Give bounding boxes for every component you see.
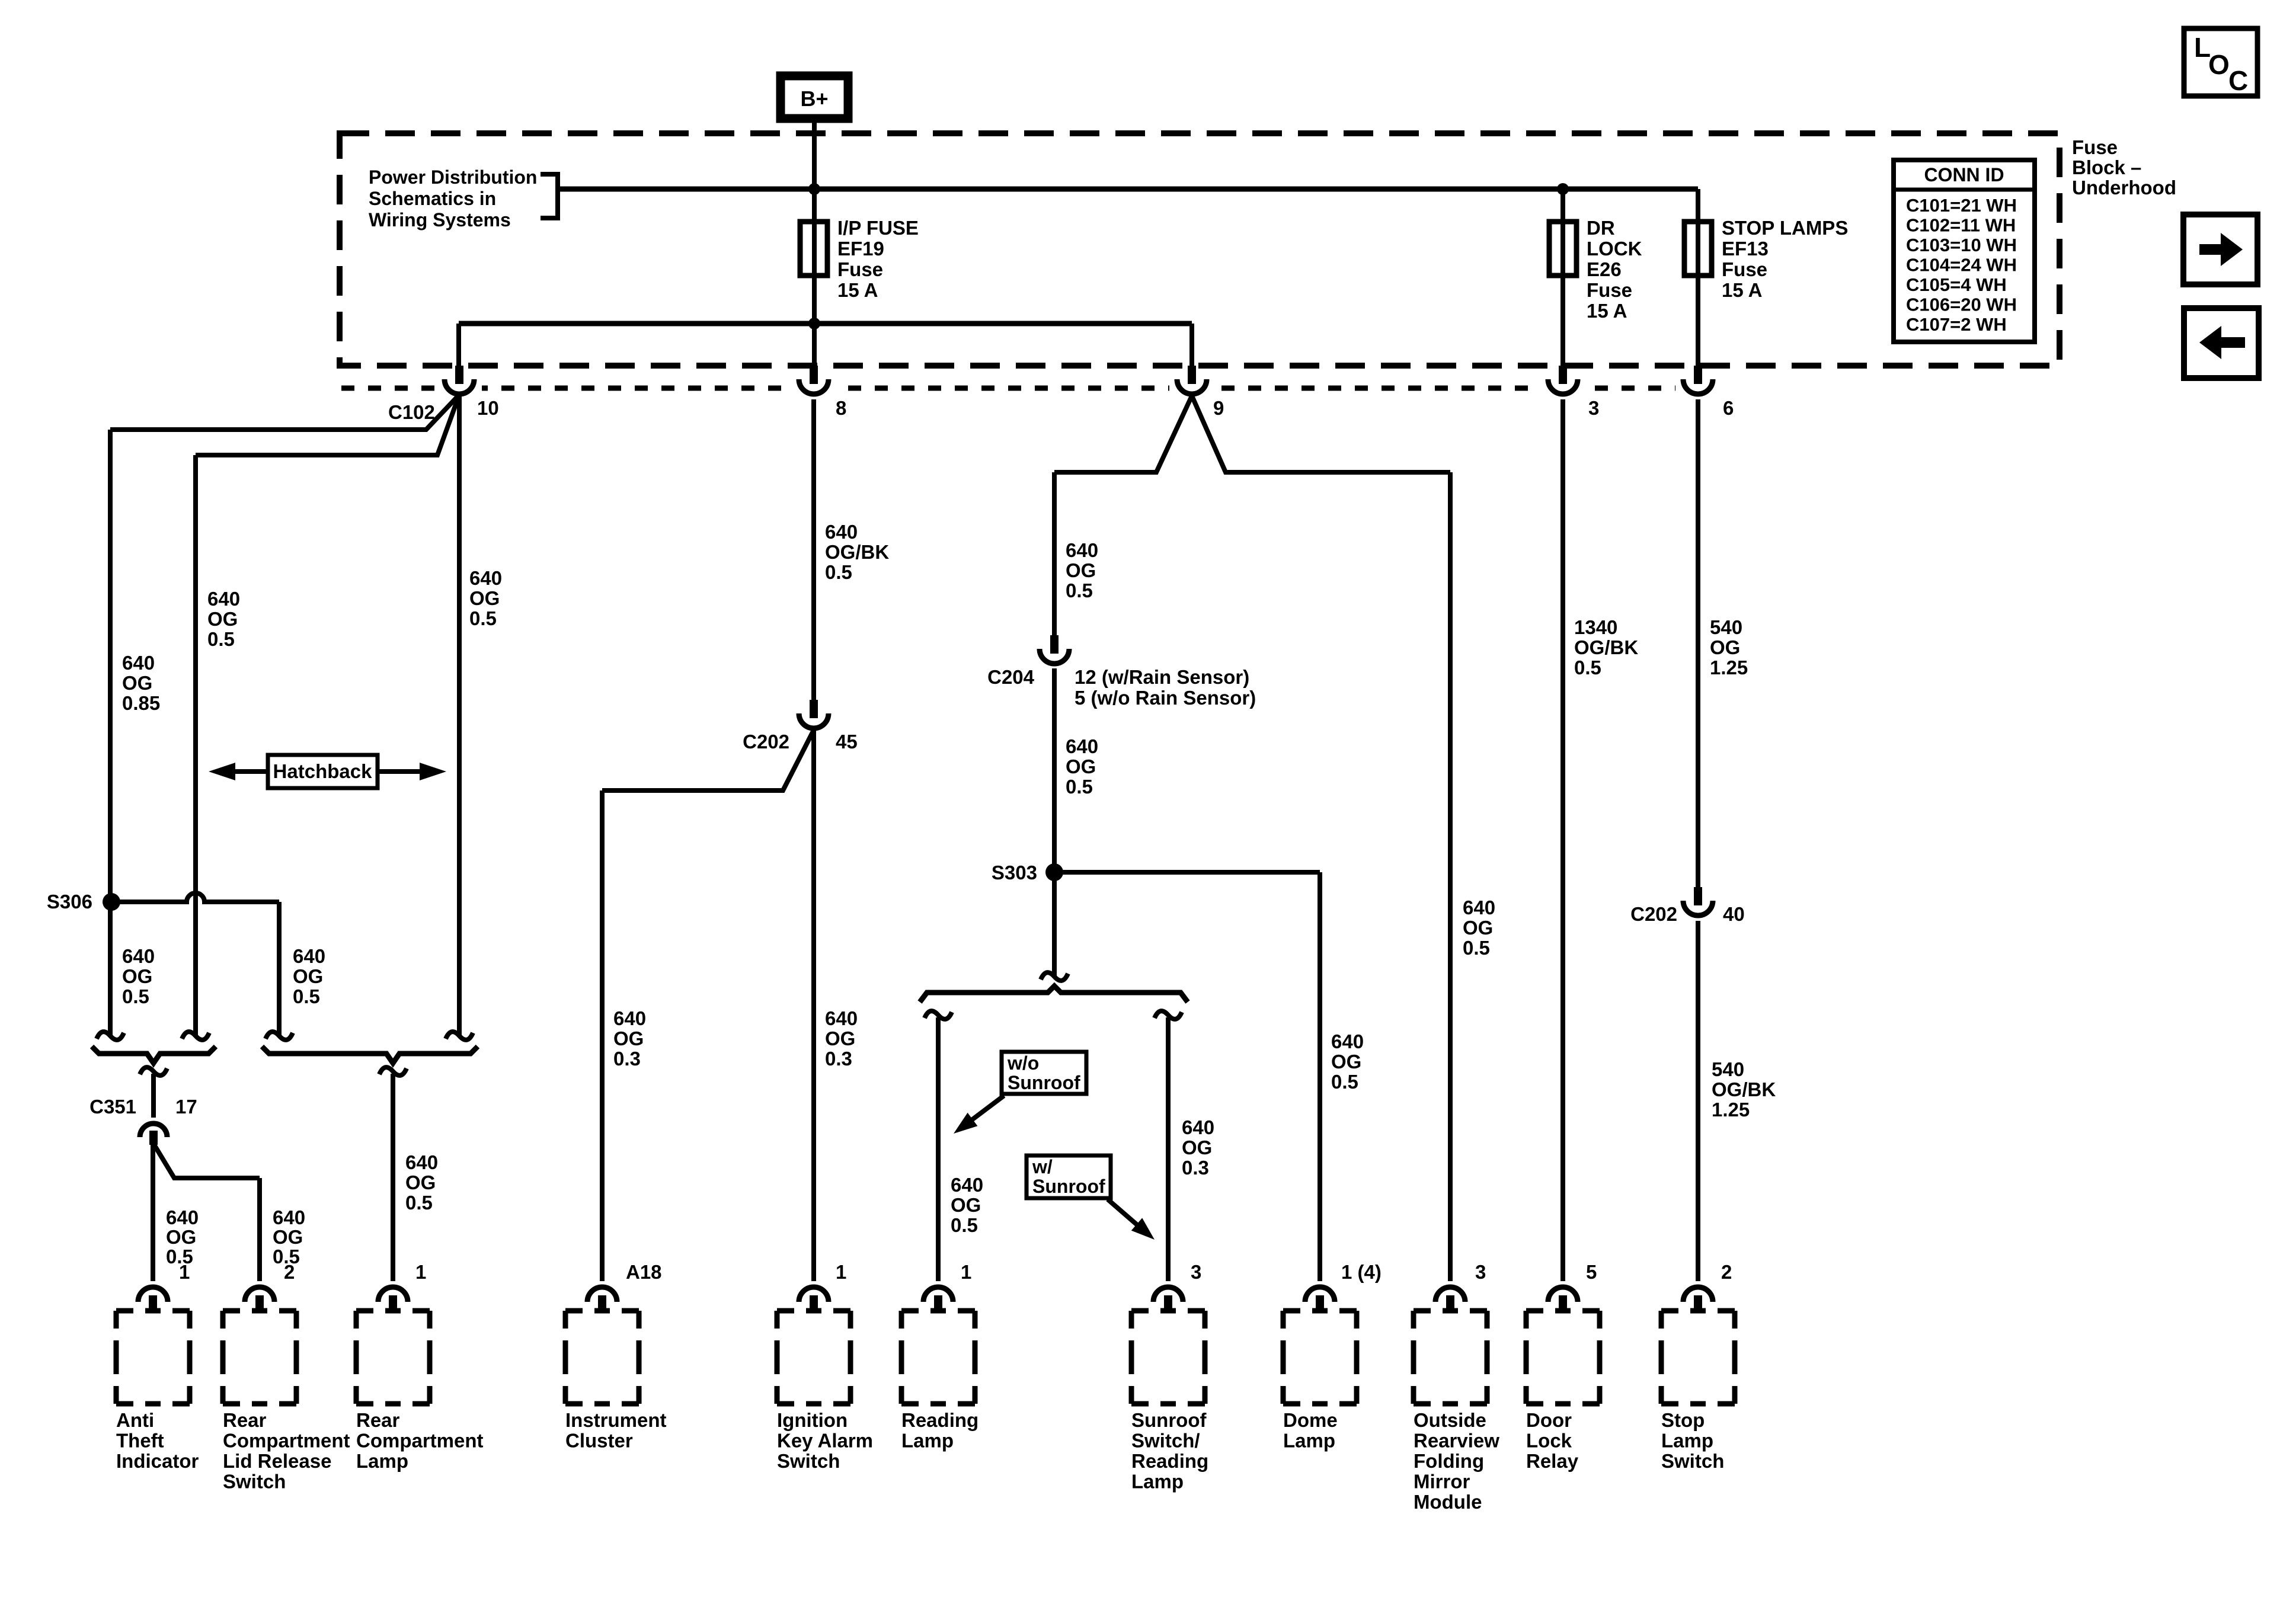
svg-text:8: 8 [836, 397, 846, 419]
svg-text:O: O [2208, 49, 2230, 80]
svg-text:Door: Door [1526, 1409, 1572, 1431]
svg-text:Hatchback: Hatchback [273, 760, 373, 782]
svg-text:17: 17 [175, 1096, 197, 1118]
svg-text:640: 640 [1066, 735, 1098, 757]
svg-text:Rear: Rear [223, 1409, 267, 1431]
svg-text:1.25: 1.25 [1712, 1099, 1750, 1121]
svg-text:12 (w/Rain Sensor): 12 (w/Rain Sensor) [1075, 666, 1249, 688]
svg-text:0.3: 0.3 [1182, 1157, 1209, 1179]
svg-text:OG: OG [1331, 1051, 1361, 1073]
svg-text:Relay: Relay [1526, 1450, 1579, 1472]
svg-text:S306: S306 [47, 891, 92, 913]
svg-text:Lock: Lock [1526, 1430, 1572, 1452]
svg-text:640: 640 [122, 652, 155, 674]
svg-text:OG/BK: OG/BK [1574, 636, 1638, 658]
svg-text:1: 1 [415, 1261, 426, 1283]
svg-text:Switch: Switch [1661, 1450, 1724, 1472]
svg-text:0.3: 0.3 [825, 1048, 852, 1070]
svg-text:Fuse: Fuse [1722, 258, 1767, 280]
svg-text:1: 1 [961, 1261, 971, 1283]
svg-text:1: 1 [836, 1261, 846, 1283]
svg-text:640: 640 [273, 1206, 305, 1228]
svg-text:3: 3 [1588, 397, 1599, 419]
svg-text:OG: OG [207, 608, 238, 630]
svg-text:640: 640 [122, 945, 155, 967]
svg-text:C103=10 WH: C103=10 WH [1906, 235, 2017, 255]
svg-text:2: 2 [284, 1261, 295, 1283]
svg-text:640: 640 [825, 521, 858, 543]
svg-text:0.5: 0.5 [469, 607, 497, 629]
svg-text:OG/BK: OG/BK [825, 541, 889, 563]
svg-text:Module: Module [1414, 1491, 1482, 1513]
svg-text:Lamp: Lamp [901, 1430, 954, 1452]
svg-text:OG: OG [1710, 636, 1740, 658]
svg-text:C104=24 WH: C104=24 WH [1906, 255, 2017, 276]
svg-text:1: 1 [179, 1261, 190, 1283]
svg-text:640: 640 [405, 1151, 438, 1173]
svg-text:Key Alarm: Key Alarm [777, 1430, 873, 1452]
svg-text:OG: OG [1182, 1137, 1212, 1158]
svg-text:1340: 1340 [1574, 616, 1617, 638]
svg-text:C: C [2228, 65, 2248, 96]
svg-text:C101=21 WH: C101=21 WH [1906, 195, 2017, 216]
svg-text:3: 3 [1191, 1261, 1201, 1283]
svg-text:Schematics in: Schematics in [369, 188, 496, 209]
svg-text:0.5: 0.5 [122, 985, 149, 1007]
svg-text:C102: C102 [388, 401, 435, 423]
svg-text:0.3: 0.3 [613, 1048, 641, 1070]
svg-text:0.5: 0.5 [1066, 580, 1093, 601]
svg-text:Outside: Outside [1414, 1409, 1486, 1431]
svg-text:Cluster: Cluster [565, 1430, 633, 1452]
svg-text:Fuse: Fuse [837, 258, 883, 280]
svg-text:w/: w/ [1032, 1156, 1053, 1177]
svg-text:6: 6 [1723, 397, 1734, 419]
svg-text:DR: DR [1587, 217, 1615, 239]
svg-text:Underhood: Underhood [2072, 177, 2176, 199]
svg-text:5 (w/o Rain Sensor): 5 (w/o Rain Sensor) [1075, 687, 1256, 709]
svg-text:0.5: 0.5 [1331, 1071, 1358, 1093]
svg-text:Wiring Systems: Wiring Systems [369, 209, 511, 231]
svg-text:640: 640 [207, 588, 240, 610]
svg-text:OG/BK: OG/BK [1712, 1078, 1776, 1100]
svg-text:Sunroof: Sunroof [1008, 1072, 1080, 1093]
svg-text:C204: C204 [987, 666, 1035, 688]
svg-text:Fuse: Fuse [1587, 279, 1632, 301]
svg-text:15 A: 15 A [1587, 300, 1627, 322]
svg-text:640: 640 [1066, 539, 1098, 561]
svg-text:Lamp: Lamp [1283, 1430, 1335, 1452]
svg-text:STOP LAMPS: STOP LAMPS [1722, 217, 1848, 239]
svg-text:OG: OG [122, 672, 152, 694]
svg-text:Lid Release: Lid Release [223, 1450, 331, 1472]
svg-text:A18: A18 [626, 1261, 662, 1283]
svg-text:OG: OG [825, 1028, 855, 1049]
svg-text:Reading: Reading [1131, 1450, 1208, 1472]
svg-text:S303: S303 [992, 862, 1037, 884]
svg-text:0.5: 0.5 [405, 1192, 433, 1214]
svg-text:CONN ID: CONN ID [1924, 164, 2004, 185]
svg-text:3: 3 [1475, 1261, 1486, 1283]
svg-text:Lamp: Lamp [1661, 1430, 1713, 1452]
svg-text:Theft: Theft [116, 1430, 164, 1452]
svg-text:15 A: 15 A [837, 279, 878, 301]
svg-text:Fuse: Fuse [2072, 136, 2118, 158]
svg-text:E26: E26 [1587, 258, 1622, 280]
svg-text:EF13: EF13 [1722, 238, 1769, 260]
svg-text:40: 40 [1723, 903, 1745, 925]
svg-text:OG: OG [405, 1172, 436, 1193]
svg-text:Lamp: Lamp [356, 1450, 408, 1472]
svg-text:Lamp: Lamp [1131, 1471, 1184, 1493]
svg-text:640: 640 [951, 1174, 983, 1196]
svg-text:OG: OG [1066, 756, 1096, 777]
svg-text:640: 640 [1463, 897, 1495, 918]
svg-text:15 A: 15 A [1722, 279, 1762, 301]
svg-text:Ignition: Ignition [777, 1409, 848, 1431]
svg-text:w/o: w/o [1007, 1052, 1039, 1074]
svg-text:Switch: Switch [223, 1471, 286, 1493]
svg-text:Instrument: Instrument [565, 1409, 667, 1431]
svg-text:540: 540 [1712, 1058, 1744, 1080]
svg-text:OG: OG [122, 965, 152, 987]
svg-text:Switch/: Switch/ [1131, 1430, 1200, 1452]
svg-text:OG: OG [951, 1194, 981, 1216]
svg-text:Dome: Dome [1283, 1409, 1338, 1431]
svg-text:C202: C202 [743, 731, 789, 753]
svg-text:45: 45 [836, 731, 858, 753]
svg-text:1.25: 1.25 [1710, 657, 1748, 678]
svg-text:5: 5 [1586, 1261, 1597, 1283]
svg-text:Compartment: Compartment [356, 1430, 484, 1452]
svg-text:OG: OG [613, 1028, 644, 1049]
svg-text:OG: OG [273, 1226, 303, 1248]
svg-text:Power Distribution: Power Distribution [369, 167, 537, 188]
svg-text:Sunroof: Sunroof [1032, 1176, 1105, 1197]
svg-text:Sunroof: Sunroof [1131, 1409, 1207, 1431]
svg-text:Switch: Switch [777, 1450, 840, 1472]
svg-text:OG: OG [1463, 917, 1493, 939]
svg-text:0.5: 0.5 [293, 985, 320, 1007]
svg-text:Anti: Anti [116, 1409, 154, 1431]
svg-text:640: 640 [293, 945, 325, 967]
svg-text:Reading: Reading [901, 1409, 978, 1431]
svg-text:640: 640 [469, 567, 502, 589]
svg-text:640: 640 [613, 1007, 646, 1029]
svg-text:C105=4 WH: C105=4 WH [1906, 274, 2007, 295]
svg-text:0.5: 0.5 [951, 1214, 978, 1236]
svg-text:0.5: 0.5 [1463, 937, 1490, 959]
svg-text:0.85: 0.85 [122, 692, 160, 714]
svg-text:I/P FUSE: I/P FUSE [837, 217, 919, 239]
svg-text:C107=2 WH: C107=2 WH [1906, 314, 2007, 335]
svg-text:640: 640 [1331, 1030, 1364, 1052]
svg-text:OG: OG [166, 1226, 196, 1248]
svg-text:LOCK: LOCK [1587, 238, 1642, 260]
svg-text:640: 640 [825, 1007, 858, 1029]
svg-text:OG: OG [293, 965, 323, 987]
svg-text:2: 2 [1721, 1261, 1732, 1283]
svg-text:OG: OG [469, 587, 500, 609]
svg-text:640: 640 [1182, 1116, 1214, 1138]
svg-text:Mirror: Mirror [1414, 1471, 1470, 1493]
svg-text:0.5: 0.5 [1574, 657, 1601, 678]
svg-text:EF19: EF19 [837, 238, 884, 260]
svg-text:640: 640 [166, 1206, 199, 1228]
svg-text:1 (4): 1 (4) [1341, 1261, 1382, 1283]
svg-text:0.5: 0.5 [1066, 776, 1093, 798]
svg-text:C102=11 WH: C102=11 WH [1906, 215, 2016, 236]
svg-text:540: 540 [1710, 616, 1742, 638]
svg-text:9: 9 [1213, 397, 1224, 419]
svg-text:B+: B+ [800, 87, 828, 111]
svg-text:Folding: Folding [1414, 1450, 1484, 1472]
svg-text:C202: C202 [1630, 903, 1677, 925]
svg-text:Stop: Stop [1661, 1409, 1705, 1431]
svg-text:Block –: Block – [2072, 156, 2141, 178]
svg-text:Compartment: Compartment [223, 1430, 350, 1452]
svg-text:0.5: 0.5 [207, 628, 235, 650]
svg-text:Rearview: Rearview [1414, 1430, 1499, 1452]
svg-text:C106=20 WH: C106=20 WH [1906, 295, 2017, 315]
svg-text:0.5: 0.5 [825, 561, 852, 583]
svg-text:OG: OG [1066, 559, 1096, 581]
svg-text:Rear: Rear [356, 1409, 400, 1431]
svg-text:C351: C351 [89, 1096, 136, 1118]
svg-text:10: 10 [477, 397, 499, 419]
svg-text:Indicator: Indicator [116, 1450, 199, 1472]
